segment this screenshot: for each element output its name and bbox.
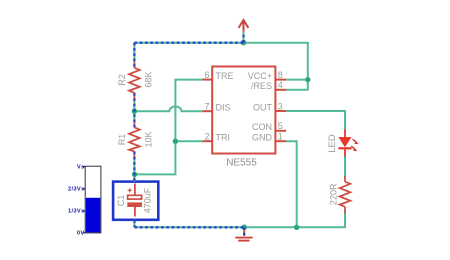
svg-text:8: 8 (278, 70, 283, 80)
svg-text:5: 5 (278, 121, 283, 131)
wire: TRE pin6 left, down to cap node (136, 80, 203, 175)
capacitor C1 470uF (127, 184, 142, 217)
pin 8 stub (275, 79, 286, 81)
svg-text:GND: GND (252, 133, 273, 143)
power supply arrow (239, 20, 249, 32)
pin labels left (216, 71, 234, 143)
wire: TRI pin2 tie (175, 140, 202, 142)
ground (235, 227, 252, 240)
emission arrows (353, 139, 357, 142)
wire: LED to 220R (344, 156, 346, 177)
wire: green under top highlighted run (134, 32, 244, 228)
node: ground node (241, 225, 247, 231)
svg-text:2: 2 (204, 132, 209, 142)
node: cap top junction (132, 172, 137, 177)
svg-text:470uF: 470uF (142, 187, 152, 213)
wire: supply node to VCC rail (244, 43, 308, 90)
pin 2 stub (203, 140, 213, 142)
node: R1/R2 junction (132, 109, 137, 114)
resistor R2 68K (129, 62, 140, 100)
svg-text:220R: 220R (328, 183, 338, 205)
svg-text:C1: C1 (116, 195, 126, 207)
selection box around C1 (113, 182, 158, 220)
pin 4 stub (275, 89, 286, 91)
wire: GND pin1 down to rail (286, 141, 297, 227)
pin numbers (204, 70, 282, 142)
svg-text:OUT: OUT (253, 102, 273, 112)
node: rail junction (294, 225, 299, 230)
pin 5 stub (275, 130, 286, 132)
svg-text:/RES: /RES (251, 81, 272, 91)
wire: 220R to ground rail (244, 213, 345, 227)
svg-text:R1: R1 (117, 134, 127, 146)
wire: highlighted supply top (dashed) (134, 33, 244, 236)
svg-text:2/3Vs: 2/3Vs (68, 187, 85, 193)
svg-text:Vs: Vs (77, 164, 85, 170)
svg-text:NE555: NE555 (226, 158, 257, 169)
svg-text:TRE: TRE (216, 71, 234, 81)
svg-text:TRI: TRI (216, 133, 231, 143)
pin 1 stub (275, 140, 286, 142)
resistor R3 220R (340, 176, 351, 214)
pin labels right (248, 71, 273, 143)
pin 6 stub (203, 79, 213, 81)
wire: OUT pin3 to LED (286, 111, 345, 131)
node: VCC rail junction (305, 77, 310, 82)
svg-text:1/3Vs: 1/3Vs (68, 209, 85, 215)
node: TRI tie junction (173, 139, 178, 144)
svg-text:6: 6 (204, 70, 209, 80)
svg-text:R2: R2 (117, 74, 127, 86)
resistor R1 10K (129, 121, 140, 158)
svg-text:0V: 0V (77, 231, 85, 237)
pin 7 stub (203, 110, 213, 112)
LED D1 (338, 130, 358, 157)
svg-text:LED: LED (327, 134, 338, 153)
svg-text:1: 1 (278, 132, 283, 142)
svg-text:10K: 10K (143, 131, 153, 147)
op-amp U1 NE555 body (212, 67, 275, 154)
svg-text:DIS: DIS (216, 103, 231, 113)
svg-text:CON: CON (252, 122, 272, 132)
svg-text:68K: 68K (143, 71, 153, 87)
node: supply node (241, 40, 247, 46)
wire: DIS pin7 to R1/R2 junction with hop (134, 106, 202, 111)
svg-text:4: 4 (278, 80, 283, 90)
svg-text:VCC+: VCC+ (248, 71, 272, 81)
svg-text:3: 3 (278, 101, 283, 111)
svg-text:7: 7 (204, 102, 209, 112)
pin 3 stub (275, 110, 286, 112)
wire: pin8 VCC+ to rail junction (286, 79, 308, 81)
voltage gauge (68, 164, 101, 236)
